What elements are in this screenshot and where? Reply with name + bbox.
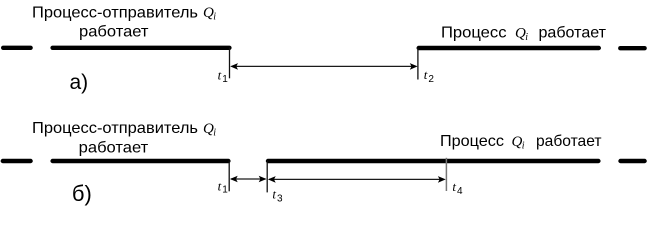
timeline A: leading continuation dash — [3, 46, 30, 50]
svg-text:2: 2 — [428, 74, 434, 85]
timeline B: sender active thick segment — [53, 159, 229, 163]
dimension arrow t1-t2 — [230, 63, 417, 70]
svg-text:а): а) — [70, 71, 89, 94]
tick t1 (timeline B) — [228, 161, 230, 192]
svg-text:i: i — [213, 12, 216, 23]
svg-text:1: 1 — [222, 184, 228, 195]
timeline B: sender-process active segment label — [32, 120, 216, 156]
timeline B: leading continuation dash — [3, 159, 31, 163]
svg-text:4: 4 — [457, 186, 463, 197]
timeline A: trailing continuation dash — [620, 46, 644, 50]
timeline B: receiver-process active segment label — [440, 133, 602, 151]
svg-text:работает: работает — [79, 139, 149, 156]
svg-text:Процесс-отправитель: Процесс-отправитель — [32, 120, 198, 137]
svg-text:работает: работает — [536, 133, 602, 150]
label t4 (timeline B) — [452, 179, 463, 197]
svg-text:i: i — [525, 32, 528, 43]
svg-text:Процесс: Процесс — [440, 133, 504, 150]
svg-text:б): б) — [72, 181, 92, 206]
label t2 (timeline A) — [424, 67, 435, 85]
svg-text:i: i — [522, 141, 525, 152]
tick t1 (timeline A) — [229, 48, 231, 79]
svg-text:t: t — [452, 179, 456, 194]
timeline A: receiver-process active segment label — [441, 25, 607, 43]
svg-text:3: 3 — [277, 194, 283, 205]
label t1 (timeline B) — [218, 179, 229, 196]
tick t4 (timeline B) — [445, 158, 447, 191]
svg-text:1: 1 — [222, 74, 228, 85]
timeline A: sender active thick segment — [53, 46, 230, 50]
svg-text:работает: работает — [539, 25, 607, 42]
svg-text:Процесс-отправитель: Процесс-отправитель — [32, 4, 198, 21]
timeline A: receiver active thick segment — [419, 46, 599, 50]
svg-text:Процесс: Процесс — [441, 25, 507, 42]
svg-text:работает: работает — [79, 23, 149, 40]
svg-text:t: t — [218, 68, 222, 83]
dimension arrow t3-t4 — [268, 176, 446, 183]
label t3 (timeline B) — [272, 187, 283, 205]
svg-text:t: t — [424, 67, 428, 82]
timeline B: receiver active thick segment — [268, 159, 598, 163]
tick t2 (timeline A) — [417, 48, 419, 80]
label t1 (timeline A) — [218, 68, 229, 86]
svg-text:t: t — [272, 187, 276, 202]
svg-text:i: i — [213, 128, 216, 139]
dimension arrow t1-t3 — [230, 176, 267, 183]
timeline B: trailing continuation dash — [621, 159, 645, 163]
timeline A: sender-process active segment label — [32, 4, 216, 40]
tick t3 (timeline B) — [266, 161, 268, 193]
svg-text:t: t — [218, 179, 222, 194]
